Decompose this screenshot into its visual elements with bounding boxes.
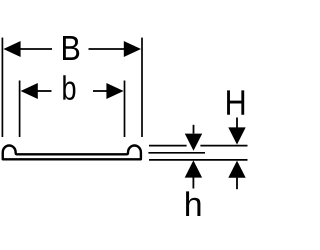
extension line b left [19,81,21,138]
dimension stem h upper [193,125,195,134]
label B [63,36,79,60]
dimension line B right tail [89,48,125,50]
dimension stem H lower [236,178,238,190]
arrowhead H down [228,127,245,144]
arrowhead B left [3,41,20,57]
arrowhead H up [228,161,245,178]
extension line b right [124,81,126,138]
dimension line b left tail [37,90,52,92]
dimension line B left tail [20,48,53,50]
arrowhead h up [185,160,202,177]
dimension stem H upper [236,118,238,128]
label h [186,191,200,216]
label H [227,90,244,114]
extension line B left [1,38,3,137]
extension line B right [141,38,143,137]
dimension line b right tail [93,90,107,92]
arrowhead b left [21,83,38,99]
reference line top (H upper) [149,145,187,147]
label b [63,75,75,100]
arrowhead B right [124,41,141,57]
profile cross-section [3,146,141,160]
reference line middle (h upper) [148,152,205,154]
arrowhead h down [185,134,202,151]
dimension stem h lower [192,177,194,188]
reference line bottom [149,159,248,161]
arrowhead b right [106,83,123,99]
